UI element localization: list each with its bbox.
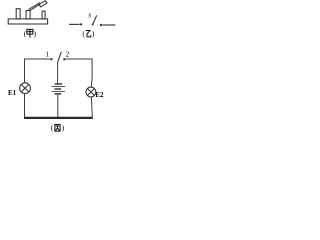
svg-text:E1: E1 <box>8 90 17 97</box>
svg-text:1: 1 <box>45 50 49 58</box>
wire: bottom <box>24 117 93 119</box>
label (bing) <box>51 123 65 132</box>
switch base <box>8 19 47 24</box>
switch blade <box>93 15 97 24</box>
label (jia) <box>24 29 37 38</box>
wire left <box>69 23 80 25</box>
contact dot 2 <box>63 58 65 60</box>
wire: left wall lower <box>24 94 26 118</box>
wire right <box>102 24 115 26</box>
knife blade <box>29 3 41 11</box>
lamp E1 <box>20 83 31 94</box>
svg-text:S: S <box>88 12 91 19</box>
svg-text:(: ( <box>82 29 85 38</box>
svg-text:E2: E2 <box>95 92 104 99</box>
label (yi) <box>82 29 95 38</box>
figure yi: schematic switch S <box>69 15 115 25</box>
battery plate long 1 <box>52 86 66 88</box>
wire: right wall lower <box>90 97 93 118</box>
svg-text:): ) <box>92 29 95 38</box>
wire: battery bottom lead <box>57 95 59 118</box>
wire: top-left <box>25 58 50 60</box>
figure jia: pictorial knife switch <box>8 1 47 24</box>
blade pivot dot <box>92 24 94 26</box>
wire: top-right <box>66 58 92 60</box>
blade handle <box>39 1 47 7</box>
wire: left wall upper <box>24 59 26 83</box>
contact dot 1 <box>50 58 52 60</box>
svg-text:(: ( <box>24 29 27 38</box>
battery plate short 1 <box>55 83 63 85</box>
battery plate short 2 <box>54 88 61 90</box>
wire: battery top lead <box>57 62 59 83</box>
lamp E2 <box>86 87 96 97</box>
battery plate short 3 <box>54 93 61 95</box>
svg-text:(: ( <box>51 123 54 132</box>
hinge post <box>26 11 30 19</box>
left terminal post <box>16 9 20 19</box>
switch blade <box>58 52 62 63</box>
battery plate long 2 <box>52 90 66 92</box>
contact dot left <box>80 23 82 25</box>
svg-text:): ) <box>62 123 65 132</box>
svg-text:2: 2 <box>66 50 70 58</box>
svg-text:): ) <box>34 29 37 38</box>
wire: right wall upper <box>90 59 93 88</box>
contact dot right <box>100 24 102 26</box>
clip post <box>42 11 45 19</box>
